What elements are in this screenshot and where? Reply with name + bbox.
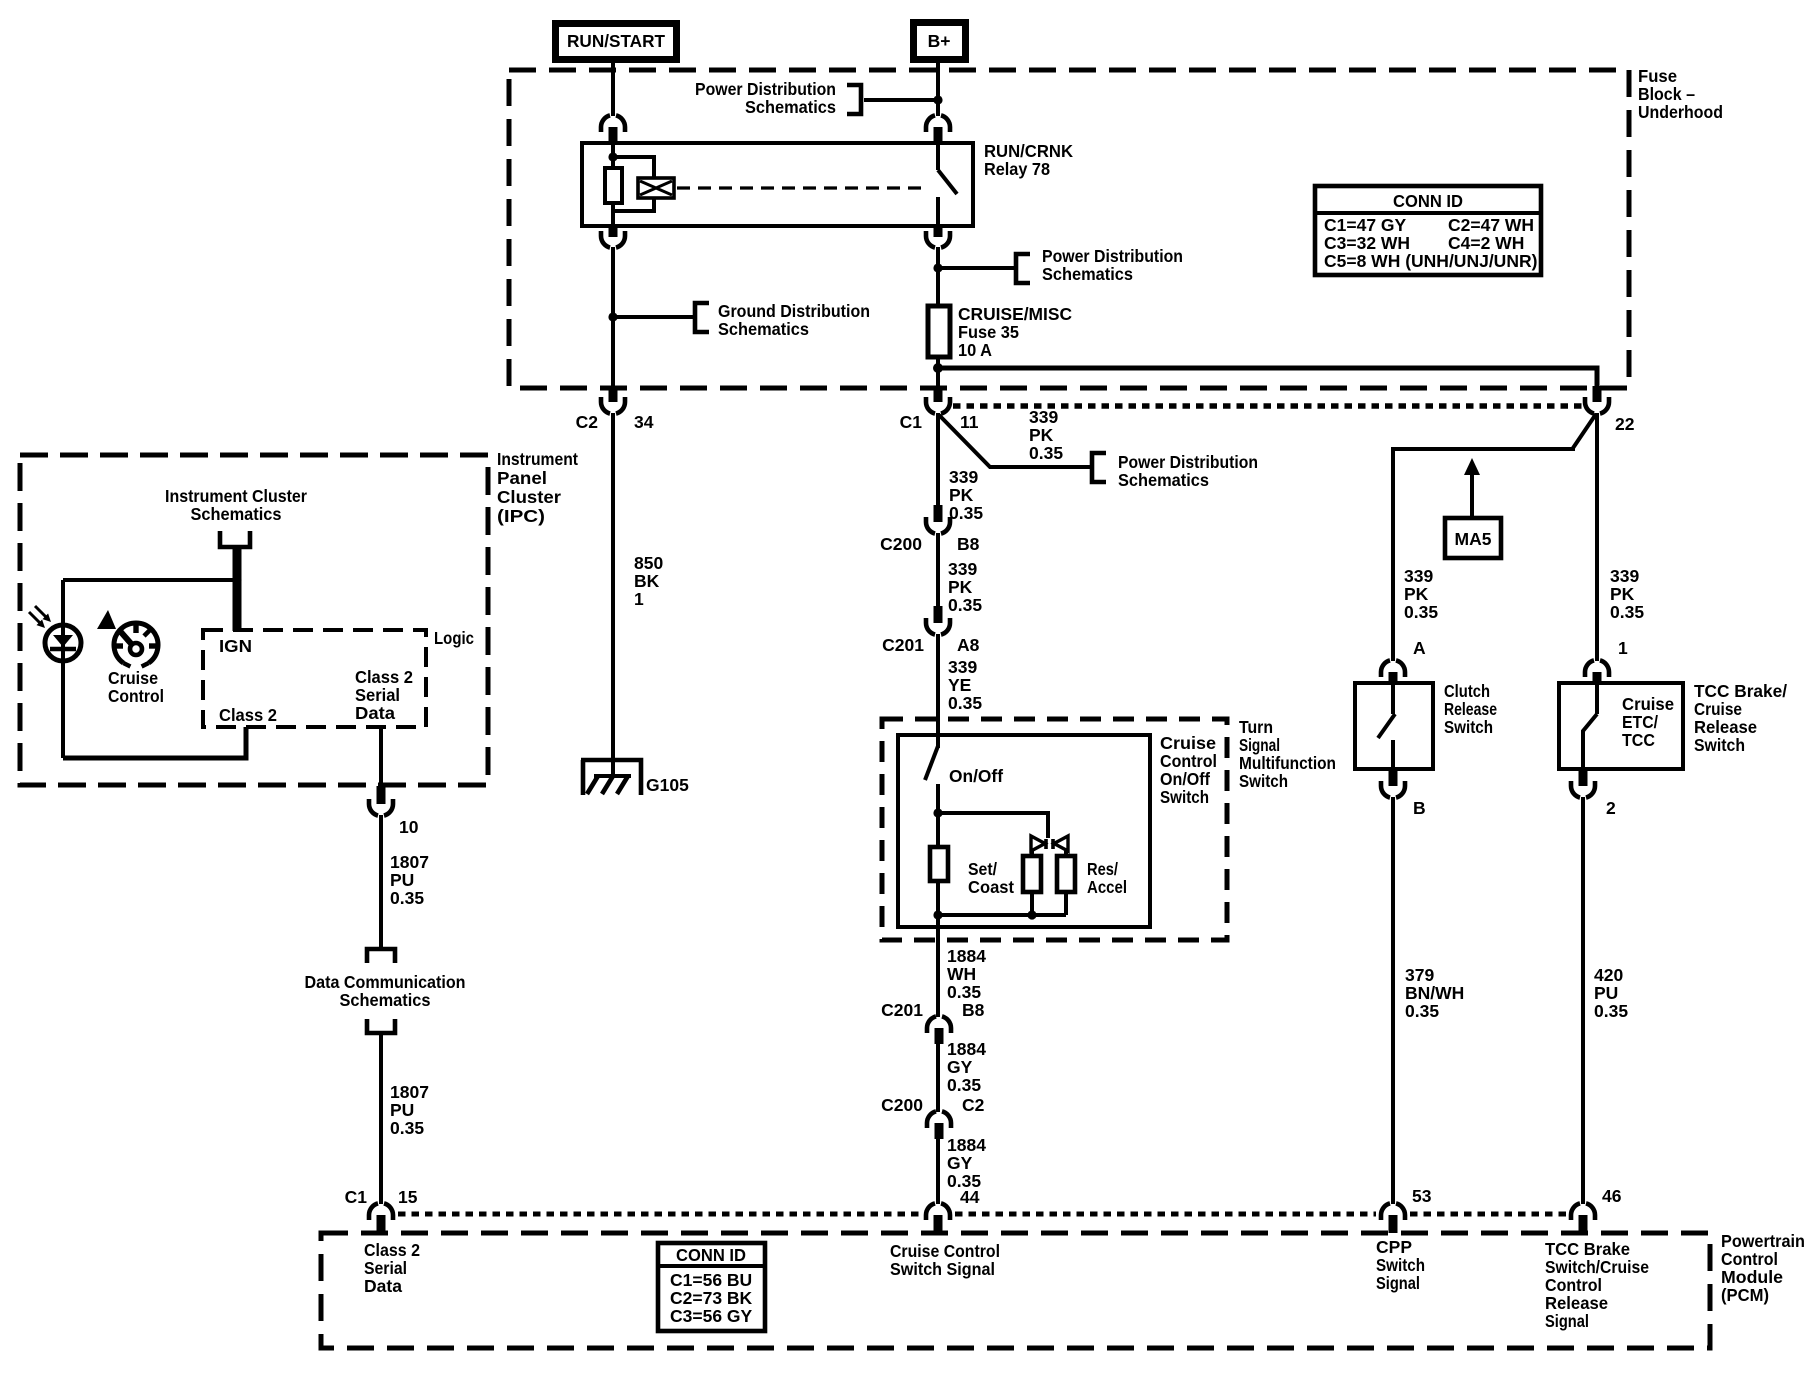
svg-text:ETC/: ETC/ (1622, 712, 1658, 732)
IPC dashed box (20, 455, 488, 785)
svg-text:Switch: Switch (1376, 1255, 1425, 1275)
wire pin 22 branch diagonal (1393, 414, 1596, 661)
wire 1807 PU segment 2 (379, 1033, 383, 1204)
label Power Distribution Schematics (top) (695, 79, 836, 117)
wire IGN feed stub (233, 547, 242, 631)
svg-text:C1: C1 (345, 1187, 368, 1207)
diode right (res/accel) (1053, 836, 1068, 857)
label RUN/CRNK Relay 78 (984, 141, 1073, 179)
svg-text:PK: PK (949, 485, 974, 505)
svg-text:339: 339 (948, 559, 977, 579)
svg-text:0.35: 0.35 (949, 503, 983, 523)
connector PCM pin 46 (1571, 1203, 1595, 1233)
wire RUN/START feed (611, 63, 615, 116)
svg-text:Logic: Logic (434, 628, 474, 648)
fuse F35 CRUISE/MISC (928, 306, 950, 357)
svg-text:PK: PK (1404, 584, 1429, 604)
node B+ branch (933, 95, 942, 104)
svg-text:15: 15 (398, 1187, 418, 1207)
label Instrument Panel Cluster (IPC) (497, 449, 578, 526)
svg-text:C3=32 WH: C3=32 WH (1324, 233, 1410, 253)
svg-text:C200: C200 (881, 1095, 923, 1115)
cruise control on/off switch box (898, 735, 1150, 927)
svg-text:Schematics: Schematics (718, 319, 809, 339)
label Res/Accel (1087, 859, 1127, 897)
svg-text:2: 2 (1606, 798, 1616, 818)
wire diagonal branch to power distribution (939, 415, 1092, 467)
wire 1884 GY segment 1 (936, 1044, 940, 1112)
svg-text:44: 44 (960, 1187, 980, 1207)
svg-text:Schematics: Schematics (340, 990, 431, 1010)
wire diode feed (938, 813, 1048, 838)
svg-text:Panel: Panel (497, 468, 547, 488)
label Power Distribution Schematics 3 (1118, 452, 1258, 490)
svg-text:Release: Release (1545, 1293, 1608, 1313)
svg-text:46: 46 (1602, 1186, 1622, 1206)
wire 339 PK segment 1 (936, 413, 940, 506)
svg-text:Signal: Signal (1376, 1273, 1420, 1293)
svg-text:53: 53 (1412, 1186, 1432, 1206)
resistor res/accel branch (1057, 856, 1075, 892)
svg-text:PU: PU (390, 1100, 414, 1120)
LED arrows (29, 606, 51, 628)
svg-text:Power Distribution: Power Distribution (695, 79, 836, 99)
svg-text:Data: Data (364, 1276, 402, 1296)
svg-text:Schematics: Schematics (1118, 470, 1209, 490)
label 850 BK 1 (634, 553, 663, 609)
svg-text:Relay 78: Relay 78 (984, 159, 1050, 179)
svg-text:Turn: Turn (1239, 717, 1273, 737)
label 1884 GY 0.35 (1) (947, 1039, 986, 1095)
svg-text:379: 379 (1405, 965, 1434, 985)
label 339 PK 0.35 (branch) (1029, 407, 1063, 463)
label 339 PK 0.35 (seg1) (949, 467, 983, 523)
label Power Distribution Schematics 2 (1042, 246, 1183, 284)
connector fuse block pin 22 (1585, 386, 1635, 434)
svg-text:C3=56 GY: C3=56 GY (670, 1306, 753, 1326)
label 1807 PU 0.35 (1) (390, 852, 429, 908)
connector clutch pin A (1381, 638, 1426, 683)
svg-text:Switch: Switch (1160, 787, 1209, 807)
svg-text:C1=56 BU: C1=56 BU (670, 1270, 752, 1290)
svg-text:Control: Control (1721, 1249, 1778, 1269)
resistor set/coast branch (1023, 856, 1041, 892)
svg-text:CPP: CPP (1376, 1237, 1412, 1257)
svg-text:Switch: Switch (1239, 771, 1288, 791)
svg-text:On/Off: On/Off (949, 766, 1003, 786)
svg-text:Set/: Set/ (968, 859, 997, 879)
svg-text:C2: C2 (576, 412, 599, 432)
connector C200 pin C2 (lower) (881, 1095, 984, 1139)
svg-text:Underhood: Underhood (1638, 102, 1723, 122)
label Cruise Control (icon) (108, 668, 164, 706)
svg-text:Switch: Switch (1694, 735, 1745, 755)
wire resistor outputs join (938, 881, 1066, 915)
tcc brake/cruise release switch box (1559, 683, 1683, 769)
svg-text:1807: 1807 (390, 852, 429, 872)
reference bracket data communication (top) (367, 949, 395, 963)
svg-text:1: 1 (634, 589, 644, 609)
svg-text:PU: PU (390, 870, 414, 890)
svg-text:MA5: MA5 (1455, 529, 1492, 549)
node power distribution branch 2 (933, 263, 942, 272)
svg-text:IGN: IGN (219, 636, 252, 656)
svg-text:(IPC): (IPC) (497, 506, 545, 526)
wire B+ feed (936, 63, 940, 116)
MA5 reference arrow (1464, 458, 1480, 518)
svg-text:10: 10 (399, 817, 419, 837)
label Cruise Control On/Off Switch (1160, 733, 1217, 807)
svg-text:Control: Control (1545, 1275, 1602, 1295)
svg-text:Switch: Switch (1444, 717, 1493, 737)
connector C2 pin 34 (576, 386, 654, 432)
fuse block underhood dashed box (509, 70, 1629, 388)
node IGN branch (232, 575, 241, 584)
connector C1 pin 11 (900, 386, 979, 432)
svg-text:339: 339 (948, 657, 977, 677)
switch tcc brake (1583, 683, 1597, 769)
connector body dotted line PCM (398, 1212, 1566, 1217)
label TCC Brake/Cruise Release Switch (1694, 681, 1787, 755)
svg-text:GY: GY (947, 1057, 973, 1077)
svg-text:Signal: Signal (1239, 735, 1280, 755)
svg-text:Powertrain: Powertrain (1721, 1231, 1805, 1251)
label 420 PU 0.35 (1594, 965, 1628, 1021)
resistor set/coast main (930, 847, 948, 881)
svg-text:Cluster: Cluster (497, 487, 561, 507)
wire relay switch output (936, 197, 940, 226)
diode left (set/coast) (1031, 836, 1046, 857)
svg-text:Release: Release (1694, 717, 1757, 737)
wire b+ switched down (936, 247, 940, 306)
svg-text:C201: C201 (882, 635, 924, 655)
svg-text:Fuse 35: Fuse 35 (958, 322, 1019, 342)
svg-text:C5=8 WH (UNH/UNJ/UNR): C5=8 WH (UNH/UNJ/UNR) (1324, 251, 1537, 271)
relay RUN/CRNK Relay 78 box (582, 143, 973, 226)
connector clutch pin B (1381, 769, 1426, 818)
label CPP Switch Signal (1376, 1237, 1425, 1293)
wire relay switch common (936, 143, 940, 170)
svg-text:Instrument: Instrument (497, 449, 578, 469)
wire lamp branch vertical (61, 580, 65, 758)
svg-text:0.35: 0.35 (1594, 1001, 1628, 1021)
label 339 PK 0.35 (seg2) (948, 559, 982, 615)
svg-text:Multifunction: Multifunction (1239, 753, 1336, 773)
svg-text:339: 339 (949, 467, 978, 487)
svg-text:C201: C201 (881, 1000, 923, 1020)
svg-text:BN/WH: BN/WH (1405, 983, 1464, 1003)
svg-text:A: A (1413, 638, 1426, 658)
wire set/coast main resistor feed (936, 813, 940, 847)
label Cruise Control Switch Signal (890, 1241, 1000, 1279)
svg-text:C2: C2 (962, 1095, 985, 1115)
reference bracket data communication (bottom) (367, 1019, 395, 1033)
svg-text:34: 34 (634, 412, 654, 432)
svg-text:Switch Signal: Switch Signal (890, 1259, 995, 1279)
svg-text:0.35: 0.35 (948, 693, 982, 713)
svg-text:PK: PK (948, 577, 973, 597)
wire pin 22 down (1595, 413, 1599, 661)
wire 420 PU (1581, 797, 1585, 1204)
svg-text:0.35: 0.35 (1610, 602, 1644, 622)
svg-text:Cruise: Cruise (1694, 699, 1742, 719)
svg-text:0.35: 0.35 (390, 888, 424, 908)
wire 850 BK to ground (611, 413, 615, 778)
label Clutch Release Switch (1444, 681, 1497, 737)
label 339 PK 0.35 (tcc) (1610, 566, 1644, 622)
node coil junction (608, 152, 617, 161)
label 1807 PU 0.35 (2) (390, 1082, 429, 1138)
svg-text:Release: Release (1444, 699, 1497, 719)
reference bracket ground distribution (695, 303, 709, 332)
wire class 2 serial data down (379, 727, 383, 786)
node set/coast branch top (933, 808, 942, 817)
label Data Communication Schematics (305, 972, 466, 1010)
label Turn Signal Multifunction Switch (1239, 717, 1336, 791)
wire fuse output (936, 357, 940, 389)
gauge icon cruise control (97, 610, 158, 667)
wire run/crnk to C2 (611, 317, 615, 386)
svg-text:Class 2: Class 2 (219, 705, 277, 725)
connector C201 pin A8 (882, 606, 979, 655)
svg-text:C4=2 WH: C4=2 WH (1448, 233, 1524, 253)
label Powertrain Control Module (PCM) (1721, 1231, 1805, 1305)
node ground distribution branch (608, 312, 617, 321)
svg-text:CRUISE/MISC: CRUISE/MISC (958, 304, 1072, 324)
svg-text:420: 420 (1594, 965, 1623, 985)
connector relay pin top-left (601, 115, 625, 144)
label Ground Distribution Schematics (718, 301, 870, 339)
svg-text:1884: 1884 (947, 946, 986, 966)
relay switch blade (938, 170, 957, 194)
reference bracket power distribution 3 (1092, 453, 1106, 482)
label Class 2 Serial Data (355, 667, 413, 723)
wire 1807 PU segment 1 (379, 815, 383, 949)
svg-text:TCC Brake/: TCC Brake/ (1694, 681, 1787, 701)
wire relay coil feed (611, 143, 615, 170)
CONN ID table (PCM) (658, 1243, 765, 1331)
svg-text:Data Communication: Data Communication (305, 972, 466, 992)
svg-text:1: 1 (1618, 638, 1628, 658)
connector IPC pin 10 (369, 786, 419, 837)
svg-text:Ground Distribution: Ground Distribution (718, 301, 870, 321)
reference bracket power distribution (top) (847, 85, 861, 114)
svg-text:TCC: TCC (1622, 730, 1655, 750)
wire 339 PK segment 2 (936, 533, 940, 607)
wire 339 YE segment (936, 634, 940, 748)
label Fuse Block - Underhood (1638, 66, 1723, 122)
reference bracket power distribution 2 (1016, 254, 1030, 283)
reference bracket instrument cluster (220, 531, 250, 547)
svg-text:Block –: Block – (1638, 84, 1695, 104)
svg-text:WH: WH (947, 964, 976, 984)
connector PCM pin 15 (369, 1203, 393, 1233)
svg-text:Serial: Serial (364, 1258, 407, 1278)
connector PCM pin 44 (926, 1203, 950, 1233)
label 1884 WH 0.35 (947, 946, 986, 1002)
power feed box RUN/START (552, 20, 680, 63)
svg-text:850: 850 (634, 553, 663, 573)
wire run/crnk output down (611, 247, 615, 317)
switch on/off blade (925, 746, 938, 780)
connector relay pin top-right (926, 115, 950, 144)
label TCC Brake Switch/Cruise Control Release Signal (1545, 1239, 1649, 1331)
label CRUISE/MISC Fuse 35 10 A (958, 304, 1072, 360)
svg-text:1884: 1884 (947, 1135, 986, 1155)
CONN ID table (fuse block) (1315, 186, 1541, 275)
svg-text:B: B (1413, 798, 1426, 818)
label 1884 GY 0.35 (2) (947, 1135, 986, 1191)
svg-text:Cruise: Cruise (108, 668, 158, 688)
ground G105 (581, 760, 689, 795)
svg-text:B8: B8 (962, 1000, 985, 1020)
svg-text:0.35: 0.35 (1405, 1001, 1439, 1021)
LED cruise indicator (45, 625, 81, 661)
svg-text:Signal: Signal (1545, 1311, 1589, 1331)
svg-text:G105: G105 (646, 775, 689, 795)
svg-text:C2=47 WH: C2=47 WH (1448, 215, 1534, 235)
relay actuation dashed link (677, 186, 928, 189)
svg-text:PK: PK (1029, 425, 1054, 445)
wire 1884 WH segment (936, 915, 940, 1017)
svg-text:Control: Control (108, 686, 164, 706)
svg-text:22: 22 (1615, 414, 1635, 434)
svg-text:11: 11 (960, 412, 979, 432)
svg-text:Power Distribution: Power Distribution (1042, 246, 1183, 266)
label 339 PK 0.35 (clutch) (1404, 566, 1438, 622)
svg-text:0.35: 0.35 (947, 982, 981, 1002)
logic dashed box (203, 630, 426, 727)
svg-text:C1=47 GY: C1=47 GY (1324, 215, 1407, 235)
svg-text:339: 339 (1029, 407, 1058, 427)
svg-text:Power Distribution: Power Distribution (1118, 452, 1258, 472)
svg-text:C200: C200 (880, 534, 922, 554)
power feed box B+ (910, 19, 969, 63)
svg-text:0.35: 0.35 (390, 1118, 424, 1138)
svg-text:YE: YE (948, 675, 971, 695)
svg-text:PK: PK (1610, 584, 1635, 604)
svg-text:B+: B+ (928, 31, 951, 51)
svg-text:CONN ID: CONN ID (676, 1245, 746, 1265)
svg-text:(PCM): (PCM) (1721, 1285, 1769, 1305)
svg-text:Class 2: Class 2 (364, 1240, 420, 1260)
label 379 BN/WH 0.35 (1405, 965, 1464, 1021)
wire fuse feed to right (938, 368, 1597, 389)
svg-text:Serial: Serial (355, 685, 400, 705)
svg-text:10 A: 10 A (958, 340, 992, 360)
svg-text:Control: Control (1160, 751, 1217, 771)
connector tcc pin 2 (1571, 769, 1616, 818)
resistor relay coil (605, 168, 622, 203)
MA5 box (1445, 518, 1501, 558)
node bottom join mid (1027, 910, 1036, 919)
wire class 2 loop (63, 727, 246, 758)
svg-text:Res/: Res/ (1087, 859, 1118, 879)
svg-text:0.35: 0.35 (948, 595, 982, 615)
svg-text:GY: GY (947, 1153, 973, 1173)
wire 1884 GY segment 2 (936, 1139, 940, 1204)
svg-text:Data: Data (355, 703, 395, 723)
turn signal multifunction switch dashed box (882, 719, 1227, 940)
svg-text:0.35: 0.35 (947, 1075, 981, 1095)
node fuse output branch (933, 363, 943, 373)
label Instrument Cluster Schematics (165, 486, 307, 524)
svg-text:Instrument Cluster: Instrument Cluster (165, 486, 307, 506)
clutch release switch box (1355, 683, 1433, 769)
wire lamp branch horizontal (63, 578, 237, 582)
wire to power distribution 2 (938, 266, 1016, 270)
svg-text:Fuse: Fuse (1638, 66, 1677, 86)
svg-text:1807: 1807 (390, 1082, 429, 1102)
wire to ground distribution (613, 315, 695, 319)
svg-text:RUN/CRNK: RUN/CRNK (984, 141, 1073, 161)
switch clutch release (1378, 683, 1395, 769)
node bottom join left (933, 910, 942, 919)
svg-text:339: 339 (1610, 566, 1639, 586)
svg-text:On/Off: On/Off (1160, 769, 1210, 789)
svg-text:1884: 1884 (947, 1039, 986, 1059)
label 339 YE 0.35 (948, 657, 982, 713)
label Class 2 Serial Data (PCM) (364, 1240, 420, 1296)
svg-text:339: 339 (1404, 566, 1433, 586)
svg-text:Schematics: Schematics (1042, 264, 1133, 284)
svg-text:Cruise Control: Cruise Control (890, 1241, 1000, 1261)
svg-text:Schematics: Schematics (745, 97, 836, 117)
svg-text:Switch/Cruise: Switch/Cruise (1545, 1257, 1649, 1277)
label Cruise ETC/TCC (1622, 694, 1674, 750)
connector C200 pin B8 (880, 505, 979, 554)
svg-text:Class 2: Class 2 (355, 667, 413, 687)
svg-text:Cruise: Cruise (1622, 694, 1674, 714)
svg-text:Coast: Coast (968, 877, 1014, 897)
svg-text:CONN ID: CONN ID (1393, 191, 1463, 211)
svg-text:0.35: 0.35 (1404, 602, 1438, 622)
wire on/off output (936, 784, 940, 813)
connector PCM pin 53 (1381, 1203, 1405, 1233)
svg-text:C2=73 BK: C2=73 BK (670, 1288, 753, 1308)
svg-text:Module: Module (1721, 1267, 1783, 1287)
connector relay pin bottom-right (926, 226, 950, 248)
wire coil loop (613, 157, 654, 226)
connector body dotted line C1-22 (953, 403, 1582, 409)
svg-text:PU: PU (1594, 983, 1618, 1003)
wire to power distribution (864, 98, 938, 102)
svg-text:B8: B8 (957, 534, 980, 554)
PCM dashed box (321, 1233, 1710, 1348)
svg-text:C1: C1 (900, 412, 923, 432)
connector relay pin bottom-left (601, 226, 625, 248)
wire 379 BN/WH (1391, 797, 1395, 1204)
label Set/Coast (968, 859, 1014, 897)
svg-text:BK: BK (634, 571, 660, 591)
svg-text:A8: A8 (957, 635, 980, 655)
svg-text:Clutch: Clutch (1444, 681, 1490, 701)
connector C201 pin B8 (lower) (881, 1000, 984, 1044)
relay coil solenoid box (638, 178, 674, 198)
svg-text:RUN/START: RUN/START (567, 31, 665, 51)
connector tcc pin 1 (1585, 638, 1628, 683)
svg-text:Schematics: Schematics (191, 504, 282, 524)
svg-text:0.35: 0.35 (1029, 443, 1063, 463)
svg-text:Accel: Accel (1087, 877, 1127, 897)
svg-text:Cruise: Cruise (1160, 733, 1216, 753)
svg-text:TCC Brake: TCC Brake (1545, 1239, 1630, 1259)
